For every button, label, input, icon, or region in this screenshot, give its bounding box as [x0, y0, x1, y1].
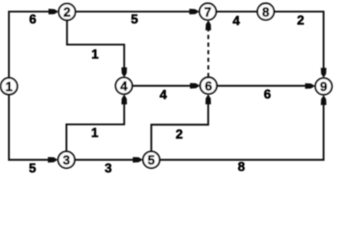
svg-text:1: 1	[91, 125, 98, 140]
wire 3-5	[75, 159, 137, 161]
node 9	[315, 78, 332, 95]
wire 5-9	[160, 101, 324, 160]
wire 6-9	[217, 85, 309, 87]
node 8	[257, 3, 274, 20]
svg-text:6: 6	[29, 12, 36, 27]
wire 5-6	[151, 100, 208, 152]
svg-text:6: 6	[205, 78, 212, 93]
wire 4-6	[132, 85, 193, 87]
svg-text:7: 7	[204, 4, 211, 19]
arrow into node 9 top	[321, 68, 327, 78]
wire 3-4	[66, 100, 124, 151]
svg-text:1: 1	[91, 47, 98, 62]
svg-text:5: 5	[29, 161, 36, 176]
svg-text:2: 2	[176, 126, 183, 141]
svg-text:4: 4	[120, 79, 128, 94]
arrow into node 9 bottom	[321, 95, 327, 105]
arrow into node 4 top	[121, 67, 127, 77]
wire 7-8	[216, 11, 257, 13]
svg-text:6: 6	[264, 86, 271, 101]
arrow into node 5	[133, 157, 143, 163]
svg-text:9: 9	[320, 79, 327, 94]
svg-text:3: 3	[63, 153, 70, 168]
svg-text:2: 2	[63, 5, 70, 20]
node 4	[116, 78, 133, 95]
dashed dummy wire 6-7	[207, 26, 209, 78]
wire 1-2	[9, 12, 52, 79]
node 3	[58, 152, 75, 169]
wire 2-7	[75, 11, 193, 13]
arrow into node 9 left	[305, 83, 315, 89]
svg-text:3: 3	[105, 160, 112, 175]
arrow into node 7	[189, 9, 199, 15]
arrow into node 7 bottom	[206, 20, 212, 30]
arrow into node 3	[48, 157, 58, 163]
svg-text:1: 1	[5, 79, 12, 94]
node 1	[1, 78, 18, 95]
node 6	[200, 77, 217, 94]
svg-text:2: 2	[297, 13, 304, 28]
svg-text:5: 5	[148, 153, 155, 168]
arrow into node 2	[49, 9, 59, 15]
wire 2-4	[67, 20, 124, 71]
arrow into node 6 left	[190, 83, 200, 89]
svg-text:4: 4	[233, 13, 241, 28]
node 2	[59, 4, 76, 21]
svg-text:8: 8	[262, 4, 269, 19]
node 7	[200, 3, 217, 20]
wire 1-3	[9, 94, 52, 159]
svg-text:8: 8	[238, 159, 245, 174]
wire 8-9	[274, 12, 323, 72]
arrow into node 4 bottom	[121, 94, 127, 104]
svg-text:5: 5	[131, 12, 138, 27]
arrow into node 6 bottom	[205, 94, 211, 104]
svg-text:4: 4	[160, 87, 168, 102]
node 5	[143, 152, 160, 169]
